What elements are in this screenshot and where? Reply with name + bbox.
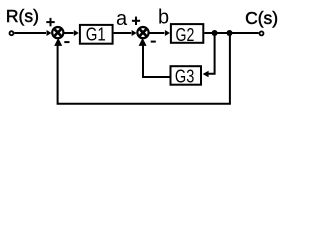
- svg-text:G1: G1: [86, 24, 106, 45]
- svg-text:C(s): C(s): [245, 8, 278, 28]
- svg-text:a: a: [116, 8, 128, 30]
- svg-text:R(s): R(s): [6, 6, 39, 26]
- svg-text:G3: G3: [175, 66, 194, 87]
- svg-text:G2: G2: [176, 24, 195, 45]
- svg-text:b: b: [158, 7, 169, 29]
